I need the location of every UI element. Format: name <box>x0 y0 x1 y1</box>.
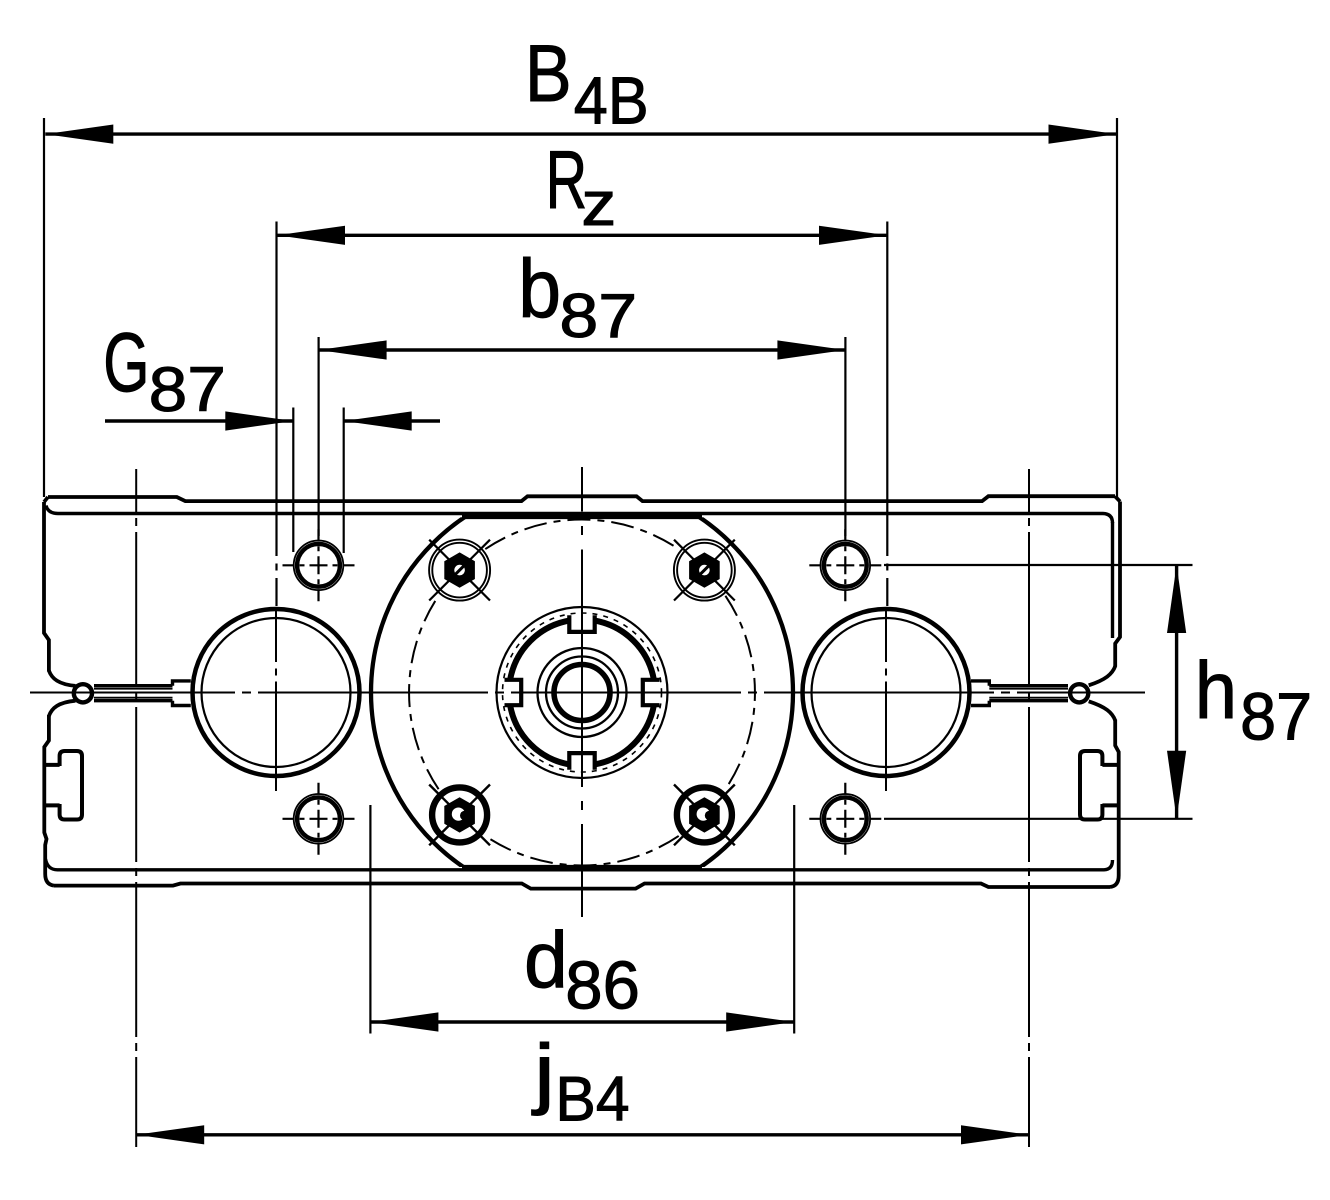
castle notch bottom <box>569 753 594 770</box>
boss dashed pitch circle <box>503 613 662 772</box>
keyhole circle left <box>74 684 92 702</box>
right port vertical centerline <box>885 609 887 792</box>
svg-text:B: B <box>525 28 572 119</box>
housing left edge lower segment with T-slot step <box>44 715 49 874</box>
svg-text:4B: 4B <box>574 63 649 138</box>
G87 left extension line <box>292 408 294 553</box>
Rz left arrow <box>277 226 345 245</box>
Rz right arrow <box>819 226 887 245</box>
housing bottom-left rounded corner <box>45 874 54 886</box>
b87 right extension line <box>844 337 846 536</box>
left keyhole upper flare <box>49 671 76 686</box>
boss heavy castle ring (4 arcs) <box>510 621 654 765</box>
housing top-right corner chamfer <box>1115 496 1120 501</box>
b87 left extension line <box>318 337 320 536</box>
G87 left tail line <box>105 419 293 422</box>
shaft bore thin circle outer <box>538 648 627 737</box>
housing right edge lower segment <box>1115 720 1119 876</box>
right port inner circle <box>812 618 961 767</box>
castle notch right <box>643 680 660 705</box>
left threaded slot: thin thread lines <box>94 689 173 698</box>
flange screw bottom-right <box>674 785 735 846</box>
flange top face band filler <box>462 514 702 517</box>
B4B dimension line <box>45 132 1116 135</box>
Rz right extension line <box>886 222 888 607</box>
housing bottom outer edge with end steps and lowered center tab <box>54 884 1110 889</box>
flange top chord <box>462 515 702 519</box>
B4B left extension line <box>43 118 45 497</box>
housing bottom-right rounded corner <box>1110 876 1119 888</box>
bolt circle (dashed) <box>409 520 755 866</box>
svg-text:h: h <box>1195 645 1237 735</box>
h87 dimension line <box>1175 565 1178 819</box>
right keyhole upper flare <box>1089 666 1116 685</box>
right threaded slot: heavy outer lines <box>989 686 1068 701</box>
b87 left arrow <box>319 340 387 359</box>
left keyhole lower flare <box>49 701 76 716</box>
G87 left arrow (pointing right) <box>225 411 293 430</box>
G87 right tail line <box>344 419 440 422</box>
G87 right extension line <box>343 408 345 554</box>
svg-text:d: d <box>524 915 568 1004</box>
jB4 right extension centerline <box>1028 469 1030 1147</box>
b87 dimension line <box>319 348 846 351</box>
svg-text:87: 87 <box>1240 678 1312 753</box>
mounting hole top-right <box>809 529 881 601</box>
svg-text:87: 87 <box>559 281 637 350</box>
right inner vertical below top corner <box>1111 522 1114 638</box>
left slot mouth step <box>173 681 191 706</box>
flange bottom face band filler <box>462 867 702 870</box>
bottom inner face line <box>46 859 1113 870</box>
mounting hole top-left <box>283 529 355 601</box>
housing top-left corner chamfer <box>44 497 48 502</box>
right slot mouth step <box>971 681 989 706</box>
B4B left arrow <box>45 125 113 144</box>
housing right edge upper segment <box>1115 502 1120 667</box>
jB4 left extension centerline <box>135 469 137 1147</box>
jB4 dimension line <box>136 1133 1029 1136</box>
right keyhole lower flare <box>1089 701 1116 720</box>
mounting hole bottom-left <box>283 783 355 855</box>
svg-text:86: 86 <box>565 949 640 1024</box>
svg-text:B4: B4 <box>555 1064 629 1134</box>
Rz dimension line <box>277 234 887 237</box>
left threaded slot: heavy outer lines <box>94 686 173 701</box>
B4B right arrow <box>1049 125 1117 144</box>
d86 left arrow <box>370 1012 438 1031</box>
right threaded slot: thin thread lines <box>989 689 1068 698</box>
left port inner circle <box>202 618 351 767</box>
right port outer circle <box>803 609 970 776</box>
right T-slot cavity outline <box>1080 751 1102 820</box>
left port vertical centerline <box>275 609 277 792</box>
svg-text:z: z <box>581 170 616 240</box>
shaft bore heavy circle <box>554 665 610 721</box>
flange bottom chord <box>462 865 702 869</box>
jB4 right arrow <box>961 1125 1029 1144</box>
housing top outer edge with end steps and raised center tab <box>48 496 1115 501</box>
right T-slot mouth lips <box>1102 765 1117 806</box>
B4B right extension line <box>1116 118 1118 497</box>
left T-slot mouth lips <box>44 765 59 806</box>
left port outer circle <box>193 609 360 776</box>
G87 right arrow (pointing left) <box>344 411 412 430</box>
b87 right arrow <box>777 340 845 359</box>
left T-slot cavity outline <box>60 751 82 820</box>
mounting hole bottom-right <box>809 783 881 855</box>
flange screw top-right <box>674 540 735 601</box>
h87 bottom arrow (pointing down) <box>1167 751 1186 819</box>
flange screw bottom-left <box>429 785 490 846</box>
h87 bottom extension line <box>884 818 1193 820</box>
svg-text:j: j <box>531 1029 555 1117</box>
h87 top arrow (pointing up) <box>1167 565 1186 633</box>
flange screw top-left <box>429 540 490 601</box>
svg-text:b: b <box>518 243 561 335</box>
housing left edge upper segment <box>44 502 49 672</box>
d86 left extension line <box>369 805 371 1034</box>
main vertical centerline <box>581 467 583 917</box>
d86 right arrow <box>726 1012 794 1031</box>
castle notch left <box>505 680 522 705</box>
main horizontal centerline <box>30 692 1145 694</box>
svg-text:G: G <box>103 316 149 409</box>
shaft bore thin circle inner <box>546 657 618 729</box>
jB4 left arrow <box>136 1125 204 1144</box>
flange circle clipped by faces <box>371 482 793 904</box>
keyhole circle right <box>1070 684 1088 702</box>
h87 top extension line <box>884 564 1193 566</box>
svg-text:87: 87 <box>149 355 226 425</box>
d86 right extension line <box>793 805 795 1034</box>
boss outer thin circle <box>497 607 668 778</box>
castle notch top <box>569 615 594 632</box>
top inner face line <box>46 506 1113 524</box>
d86 dimension line <box>370 1020 794 1023</box>
Rz left extension line <box>275 222 277 607</box>
